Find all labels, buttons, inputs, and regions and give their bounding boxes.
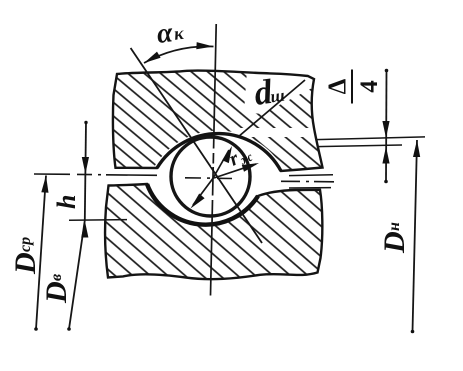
screw block (bottom) hatching xyxy=(100,180,335,290)
horizontal dash-dot centerline, left xyxy=(34,174,157,175)
svg-text:в: в xyxy=(48,274,65,281)
vertical centerline xyxy=(211,24,217,296)
dash-dot right xyxy=(281,180,334,183)
leader line of d_sh xyxy=(238,80,305,137)
screw block (bottom) outline xyxy=(105,184,322,279)
svg-text:Δ: Δ xyxy=(324,78,351,94)
r_zh arrow xyxy=(214,164,256,178)
svg-text:h: h xyxy=(52,195,81,209)
alpha_k arc xyxy=(144,46,214,63)
svg-text:D: D xyxy=(40,281,73,304)
centerline dash gaps xyxy=(212,149,216,154)
svg-text:κ: κ xyxy=(173,23,185,44)
nut block (top) outline xyxy=(113,71,323,171)
contact angle line xyxy=(131,48,262,243)
top-right OD lines xyxy=(316,137,425,140)
D_n dimension line xyxy=(413,140,418,332)
Delta/4 dimension line xyxy=(385,70,388,182)
clear band above ball groove xyxy=(157,70,317,171)
ball xyxy=(171,137,250,216)
line end blobs xyxy=(34,327,38,331)
ball radius arrows xyxy=(212,150,229,180)
left: D_sr dimension line xyxy=(36,176,46,330)
thick groove arc under ball xyxy=(147,184,258,225)
svg-text:D: D xyxy=(378,231,411,254)
D_v datum line xyxy=(69,219,127,222)
gap lines right of ball xyxy=(289,174,333,177)
nut block (top) hatching xyxy=(100,60,335,180)
svg-text:D: D xyxy=(9,252,42,275)
svg-text:ш: ш xyxy=(269,86,286,107)
left: h / D_v dimension line xyxy=(85,122,86,221)
svg-text:н: н xyxy=(386,222,403,231)
top groove arc (nut raceway) xyxy=(157,134,281,171)
svg-text:α: α xyxy=(155,17,175,50)
svg-text:ср: ср xyxy=(17,237,34,252)
dash-dot through ball xyxy=(185,177,232,180)
svg-text:4: 4 xyxy=(356,80,383,93)
